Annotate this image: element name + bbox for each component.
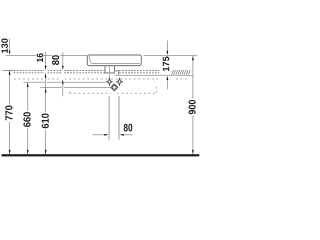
drain center line (108, 66, 110, 79)
dim 770 text (5, 106, 12, 121)
supply star left (107, 79, 112, 86)
dim 660 line (27, 83, 29, 155)
rim level extension line right (144, 55, 198, 57)
dim 16 text (37, 53, 43, 62)
dim 130 text (1, 39, 8, 53)
dim 770 line (9, 71, 11, 155)
dim 80 left text (52, 55, 59, 65)
extension line A supply level (23, 81, 106, 83)
dim 610 top arrow (45, 88, 47, 92)
dim 80 left upper arrow (62, 52, 64, 65)
dim 80 bottom right arrow (124, 134, 133, 136)
dim 130 line (9, 39, 11, 51)
dim 175 text (163, 57, 169, 72)
rim level extension line left (6, 54, 88, 56)
dim 900 text (188, 100, 195, 114)
dim 900 line (192, 56, 194, 154)
extension line B drain level (40, 86, 110, 88)
drain diamond symbol (111, 84, 118, 91)
countertop top dashed line (14, 69, 160, 71)
dim 80 left lower arrow (62, 84, 64, 97)
dim 80 bottom left arrow (93, 134, 105, 136)
dim 80 bottom verticals (109, 96, 119, 140)
drain diamond inner square (113, 86, 116, 89)
dashed upturn left end (69, 92, 71, 94)
countertop section hatching right (172, 70, 191, 75)
countertop solid extension left (3, 69, 14, 71)
clearance sparse dashed line 80 below counter (14, 78, 188, 80)
dim 175 upper arrow (166, 41, 168, 51)
supply star right (117, 79, 122, 86)
drain bottom level line 175 extension (114, 74, 193, 76)
basin interior line (89, 56, 140, 64)
countertop bottom dashed line (14, 72, 160, 74)
dim 80 bottom text (124, 124, 133, 132)
basin outline (87, 55, 141, 66)
sparse dashed line bottom clearance (70, 92, 157, 94)
dim 660 text (23, 112, 30, 127)
dashed upturn right end (155, 87, 157, 93)
dim 16 upper arrow (45, 52, 47, 66)
dim 610 text (42, 114, 49, 129)
dim 175 lower arrow (166, 80, 168, 89)
drain fitting right (114, 71, 118, 76)
floor line (2, 154, 200, 156)
drain cup (105, 66, 114, 73)
dim 16 lower arrow and 610 line (45, 73, 47, 154)
